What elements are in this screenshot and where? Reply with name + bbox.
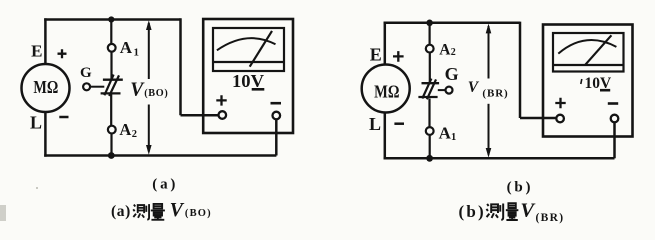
megohmmeter M2 circle: [362, 65, 410, 113]
wire top rail: [44, 18, 180, 21]
diac D1 diagonal 2: [109, 75, 119, 96]
voltmeter P2 needle: [585, 35, 612, 65]
wire branch top: [110, 20, 112, 44]
diac D2 diagonal 2: [427, 79, 436, 99]
voltmeter P1 display divider: [213, 61, 284, 63]
svg-text:(a): (a): [111, 203, 131, 220]
polarity + (top): [393, 51, 404, 62]
measurement arrow V(BO) line bottom: [148, 105, 150, 152]
wire meter feed vertical: [519, 22, 522, 118]
svg-text:V: V: [170, 199, 185, 221]
wire gate: [90, 86, 104, 88]
polarity + (top): [58, 49, 67, 58]
terminal A1 circle: [426, 127, 434, 135]
scan dot: [36, 187, 38, 189]
svg-text:(b): (b): [507, 180, 534, 196]
svg-text:(b): (b): [459, 202, 486, 221]
wire left rail bottom: [44, 112, 47, 157]
scan smudge left edge: [0, 205, 6, 221]
svg-text:(BR): (BR): [536, 212, 565, 224]
meter + terminal circle: [219, 111, 227, 119]
megohmmeter M1 circle: [22, 64, 70, 112]
voltmeter P2 display divider: [553, 64, 624, 66]
wire meter feed vertical: [179, 18, 182, 115]
svg-text:1: 1: [451, 132, 456, 143]
svg-text:(BR): (BR): [482, 88, 508, 100]
arrowhead up: [146, 20, 152, 30]
wire top rail: [384, 22, 520, 25]
label 10V with tick: [581, 79, 582, 84]
wire left rail bottom: [384, 112, 387, 159]
svg-text:L: L: [369, 114, 381, 134]
svg-text:2: 2: [451, 47, 456, 58]
voltmeter P2 display box: [553, 33, 624, 72]
meter − terminal circle: [273, 112, 281, 120]
svg-text:E: E: [370, 45, 382, 65]
svg-text:1: 1: [134, 47, 140, 59]
svg-text:G: G: [445, 64, 459, 84]
wire branch upper-mid: [429, 53, 431, 83]
wire branch lower-mid: [110, 95, 112, 126]
measurement arrow V(BR) line bottom: [488, 104, 490, 155]
svg-text:E: E: [31, 41, 42, 60]
wire left rail top: [44, 18, 47, 64]
svg-text:G: G: [80, 65, 92, 81]
terminal A1 circle: [108, 44, 116, 52]
wire meter − drop: [613, 122, 616, 158]
measurement arrow V(BR) line top: [488, 26, 490, 79]
svg-text:A: A: [439, 41, 451, 58]
wire left rail top: [384, 22, 387, 65]
svg-text:A: A: [120, 38, 133, 57]
wire branch lower-mid: [428, 99, 430, 128]
wire branch upper-mid: [110, 52, 112, 79]
terminal A2 circle: [108, 126, 116, 134]
10V underline: [252, 88, 265, 91]
diac D2 top bar: [422, 82, 440, 84]
wire branch bottom: [110, 134, 112, 156]
wire meter feed horizontal: [181, 114, 219, 117]
wire meter − drop: [275, 119, 278, 155]
meter + sign: [216, 95, 226, 105]
gate terminal circle G: [446, 87, 453, 94]
voltmeter P1 display box: [213, 28, 284, 71]
terminal A2 circle: [426, 45, 434, 53]
arrowhead up: [486, 24, 492, 34]
wire gate: [438, 89, 446, 91]
svg-text:L: L: [30, 113, 42, 133]
arrowhead down: [486, 148, 492, 158]
svg-text:MΩ: MΩ: [374, 82, 399, 102]
voltmeter P2 scale arc: [558, 40, 616, 54]
node junction dot top: [108, 16, 114, 22]
svg-text:(BO): (BO): [144, 88, 168, 99]
diac D2 bottom bar: [418, 96, 437, 98]
node junction dot bottom: [426, 155, 433, 162]
node junction dot top: [426, 20, 433, 27]
wire bottom rail: [44, 154, 276, 157]
meter − sign: [608, 102, 618, 105]
svg-text:2: 2: [132, 129, 137, 140]
voltmeter P1 outer box: [203, 19, 293, 133]
meter + terminal circle: [556, 115, 564, 123]
gate terminal circle G: [83, 83, 90, 90]
diac D1 bottom bar: [101, 92, 121, 94]
svg-text:A: A: [119, 120, 131, 139]
arrowhead down: [146, 145, 152, 155]
wire branch top: [429, 23, 431, 45]
svg-text:V: V: [130, 80, 145, 101]
voltmeter P1 needle: [250, 31, 272, 67]
voltmeter P1 scale arc: [217, 38, 276, 50]
svg-text:(a): (a): [152, 177, 178, 193]
polarity − (bottom): [394, 122, 404, 125]
wire meter feed horizontal: [520, 117, 556, 120]
voltmeter P2 outer box: [543, 25, 633, 137]
wire bottom rail: [384, 157, 615, 160]
svg-text:10V: 10V: [232, 71, 264, 91]
svg-text:A: A: [439, 124, 452, 143]
meter − terminal circle: [611, 115, 619, 123]
wire branch bottom: [429, 135, 431, 158]
polarity − (bottom): [59, 116, 68, 119]
diac D1 diagonal 1: [104, 75, 113, 96]
svg-text:MΩ: MΩ: [33, 77, 58, 97]
10V underline: [600, 89, 610, 92]
meter − sign: [271, 102, 282, 105]
svg-text:V: V: [520, 199, 536, 221]
measurement arrow V(BO) line top: [148, 23, 150, 79]
meter + sign: [555, 98, 565, 108]
node junction dot bottom: [108, 152, 115, 159]
svg-text:(BO): (BO): [185, 208, 212, 219]
svg-text:V: V: [468, 79, 480, 96]
diac D1 top bar: [103, 79, 123, 81]
diac D2 diagonal 1: [422, 79, 431, 99]
